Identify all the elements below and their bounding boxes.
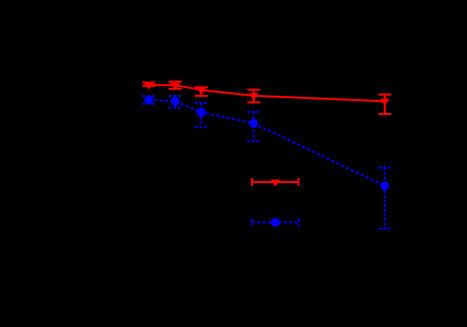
red series error bar 5: [378, 95, 391, 115]
red marker point 4: [249, 93, 259, 100]
red series error bar 2: [169, 82, 182, 89]
blue series error bar 1: [142, 96, 155, 104]
red marker point 5: [380, 99, 390, 106]
blue series line: [149, 100, 385, 186]
blue marker point 2: [171, 97, 180, 106]
blue series error bar 2: [169, 96, 182, 108]
red series error bar 1: [142, 83, 155, 86]
legend blue marker: [271, 218, 280, 227]
blue marker point 3: [197, 108, 206, 117]
blue series error bar 5: [378, 168, 391, 229]
blue series error bar 4: [247, 112, 260, 142]
legend blue sample: [252, 219, 300, 226]
red series line: [149, 85, 385, 101]
blue series error bar 3: [195, 103, 208, 127]
red series error bar 3: [195, 87, 208, 96]
legend red marker: [271, 180, 281, 187]
red series error bar 4: [247, 90, 260, 103]
blue marker point 5: [380, 181, 389, 190]
blue marker point 4: [249, 119, 258, 128]
red marker point 3: [197, 88, 207, 95]
red marker point 2: [170, 83, 180, 90]
red marker point 1: [144, 83, 154, 90]
blue marker point 1: [144, 96, 153, 105]
legend red sample: [252, 178, 299, 186]
